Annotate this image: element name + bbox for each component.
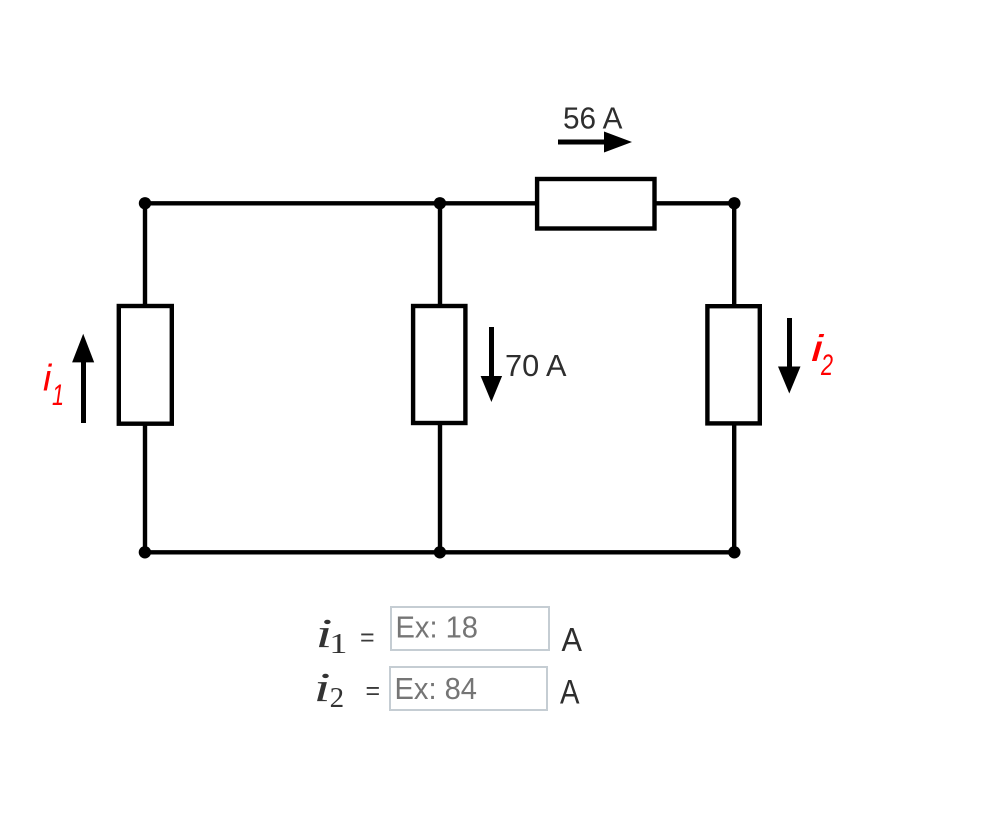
svg-text:2: 2 (330, 683, 345, 714)
svg-text:=: = (360, 623, 375, 651)
svg-text:A: A (560, 674, 580, 712)
svg-text:=: = (366, 677, 381, 705)
svg-text:1: 1 (52, 379, 64, 412)
svg-text:1: 1 (329, 629, 347, 660)
svg-text:i: i (314, 664, 331, 710)
svg-text:56 A: 56 A (563, 101, 623, 136)
svg-text:70 A: 70 A (505, 348, 567, 383)
svg-text:A: A (562, 622, 583, 659)
svg-text:2: 2 (820, 349, 833, 382)
